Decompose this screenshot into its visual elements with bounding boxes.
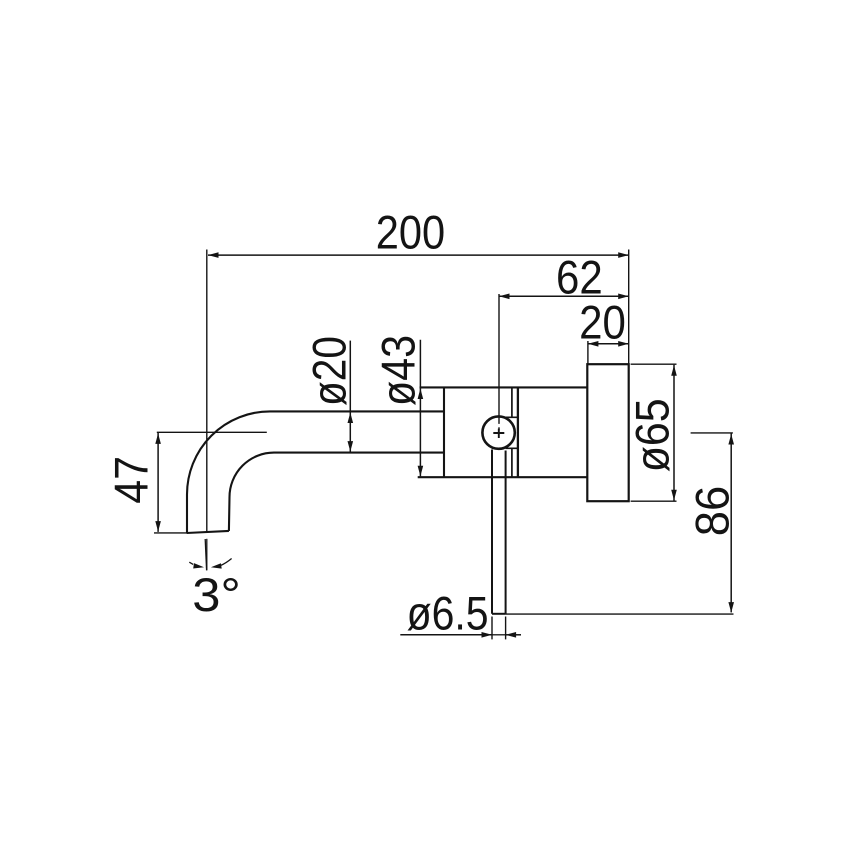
svg-text:47: 47: [104, 456, 157, 504]
svg-text:200: 200: [376, 205, 445, 258]
svg-text:ø6.5: ø6.5: [407, 587, 489, 640]
svg-text:ø65: ø65: [626, 398, 679, 472]
svg-text:ø20: ø20: [302, 336, 355, 406]
svg-text:3°: 3°: [192, 568, 241, 621]
svg-text:86: 86: [685, 486, 738, 537]
svg-text:ø43: ø43: [372, 335, 425, 406]
svg-text:20: 20: [579, 296, 626, 349]
